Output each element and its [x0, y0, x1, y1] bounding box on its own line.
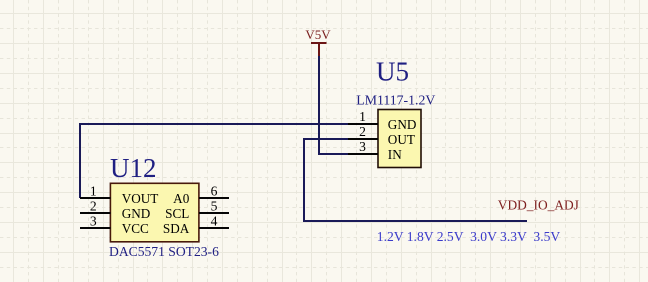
svg-text:1: 1 — [359, 109, 366, 124]
wire V5V to U5 pin 3 (IN) — [319, 56, 349, 154]
svg-text:SDA: SDA — [163, 221, 190, 236]
svg-text:GND: GND — [122, 206, 151, 221]
svg-text:5: 5 — [211, 199, 218, 214]
U5 pin 1 (GND/ADJ) — [348, 109, 416, 132]
U5 pin 2 (OUT) — [348, 124, 415, 147]
U12 pin 4 (SDA) — [163, 214, 229, 236]
U12 pin 6 (A0) — [173, 184, 229, 206]
U12 pin 3 (VCC) — [80, 214, 149, 236]
svg-text:LM1117-1.2V: LM1117-1.2V — [356, 92, 435, 107]
svg-text:3: 3 — [90, 214, 97, 229]
svg-text:VDD_IO_ADJ: VDD_IO_ADJ — [498, 197, 579, 212]
IC U12 body — [110, 183, 198, 242]
svg-text:VOUT: VOUT — [122, 191, 159, 206]
U12 pin 1 (VOUT) — [80, 184, 158, 206]
svg-text:6: 6 — [211, 184, 218, 199]
svg-text:1.2V 1.8V 2.5V 3.0V 3.3V 3.5: 1.2V 1.8V 2.5V 3.0V 3.3V 3.5V — [377, 229, 561, 244]
U5 pin 3 (IN) — [348, 139, 402, 162]
svg-text:U5: U5 — [376, 57, 409, 87]
svg-text:U12: U12 — [110, 153, 157, 183]
IC U5 body — [378, 110, 421, 168]
power port V5V — [305, 27, 331, 57]
svg-text:A0: A0 — [173, 191, 190, 206]
svg-text:DAC5571 SOT23-6: DAC5571 SOT23-6 — [109, 244, 219, 259]
U12 pin 2 (GND) — [80, 199, 150, 221]
U12 pin 5 (SCL) — [165, 199, 229, 221]
svg-text:V5V: V5V — [305, 27, 331, 42]
svg-text:2: 2 — [359, 124, 366, 139]
svg-text:SCL: SCL — [165, 206, 189, 221]
wire U5 pin 1 (ADJ) to U12 pin 1 (VOUT) — [80, 124, 349, 198]
wire U5 pin 2 (OUT) to net VDD_IO_ADJ — [304, 139, 527, 221]
svg-text:4: 4 — [211, 214, 218, 229]
svg-text:GND: GND — [388, 117, 417, 132]
svg-text:2: 2 — [90, 199, 97, 214]
svg-text:IN: IN — [388, 147, 402, 162]
svg-text:3: 3 — [359, 139, 366, 154]
svg-text:1: 1 — [90, 184, 97, 199]
svg-text:VCC: VCC — [122, 221, 149, 236]
svg-text:OUT: OUT — [388, 132, 415, 147]
